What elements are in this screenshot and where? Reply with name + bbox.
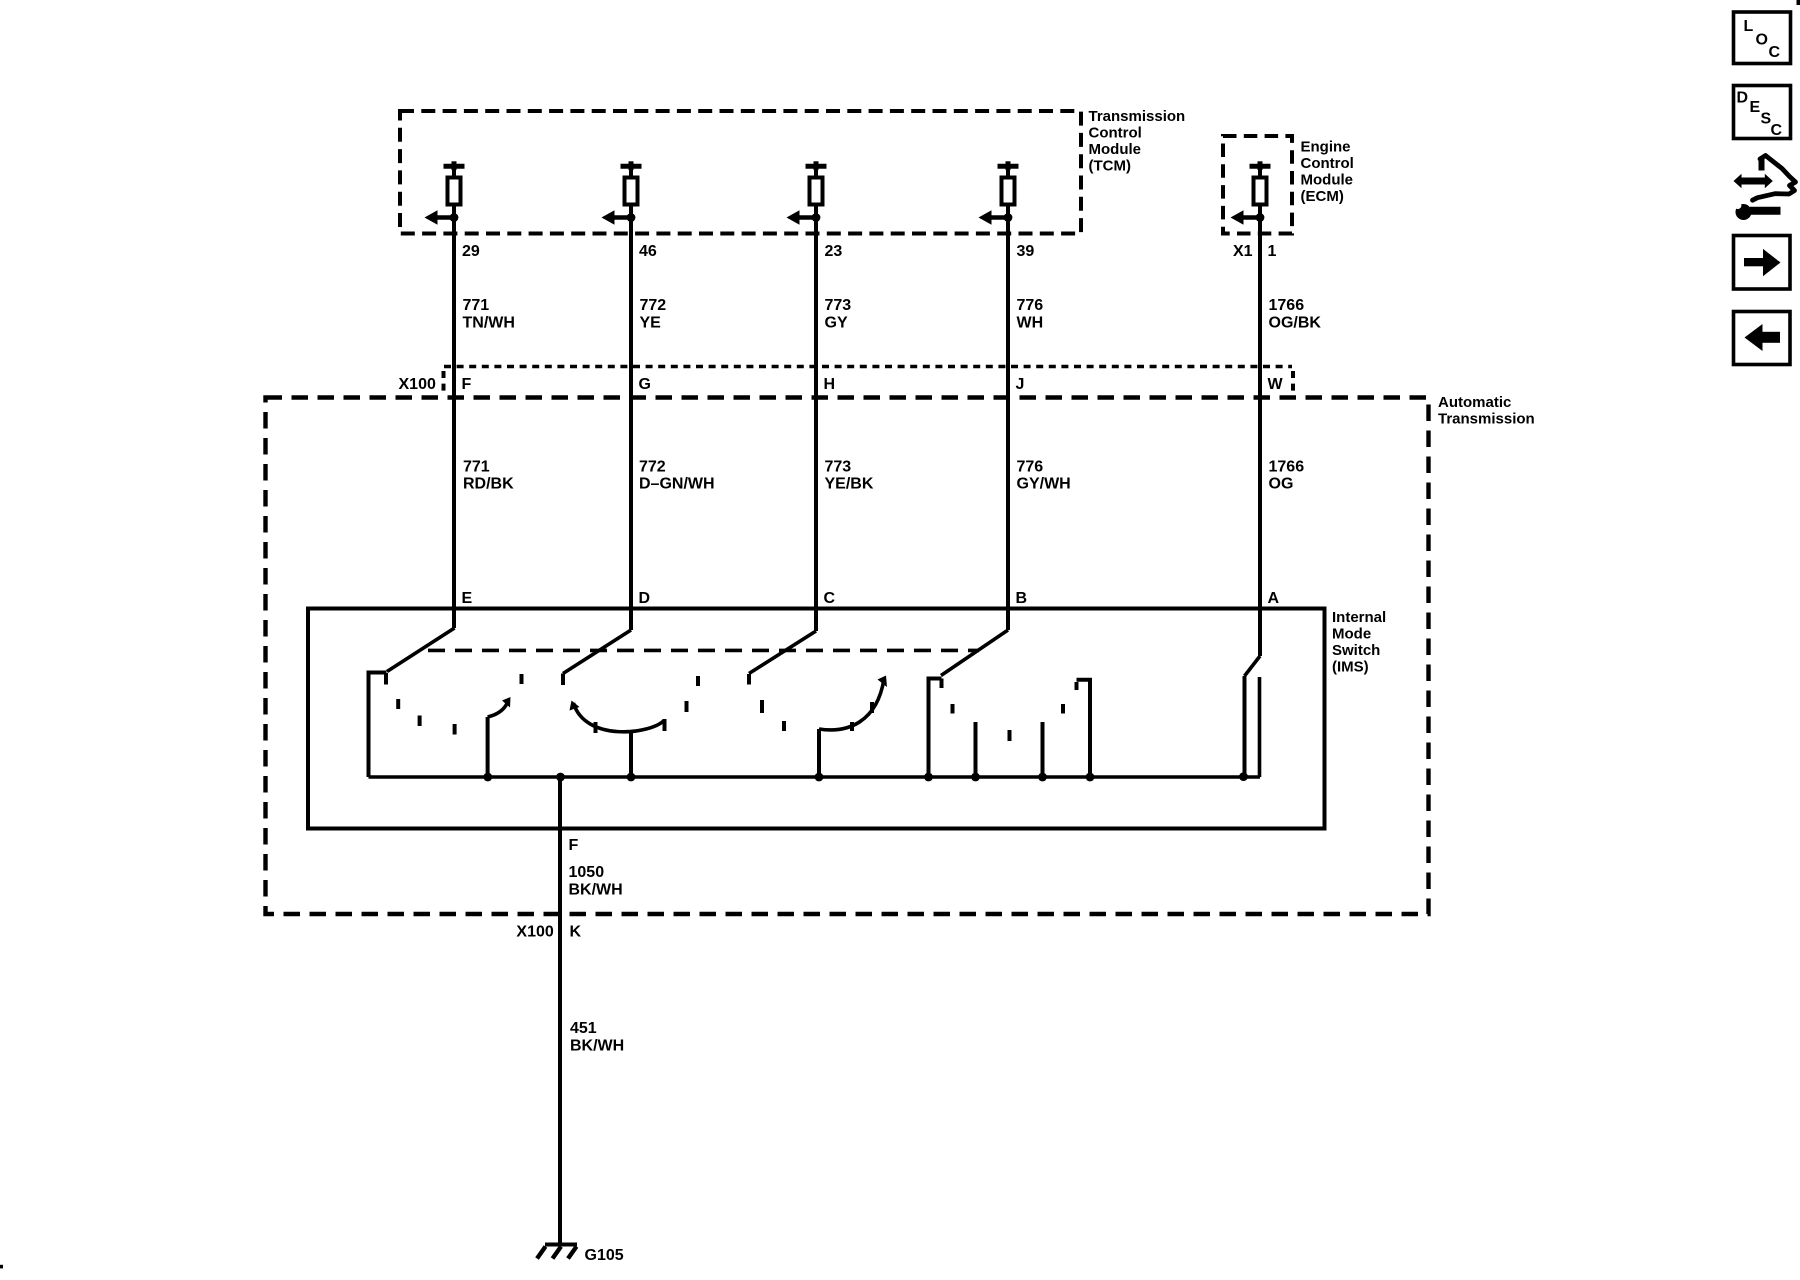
svg-text:Module: Module — [1301, 172, 1354, 189]
svg-text:23: 23 — [825, 243, 843, 260]
svg-text:1: 1 — [1268, 243, 1277, 260]
svg-text:X100: X100 — [516, 924, 553, 941]
svg-text:F: F — [569, 837, 579, 854]
svg-text:451: 451 — [570, 1020, 597, 1037]
junction dot switch B stem 1 — [971, 773, 980, 782]
svg-text:Module: Module — [1089, 141, 1142, 158]
svg-text:773: 773 — [825, 297, 852, 314]
svg-text:Transmission: Transmission — [1089, 108, 1186, 125]
svg-text:1766: 1766 — [1269, 459, 1305, 476]
IMS switch B position tick 3 — [1061, 704, 1065, 714]
IMS switch A right contact — [1258, 677, 1262, 777]
svg-text:F: F — [462, 376, 472, 393]
svg-text:Automatic: Automatic — [1438, 394, 1511, 411]
IMS solid box — [308, 609, 1325, 829]
bus junction dot for F output — [556, 773, 565, 782]
IMS switch B wiper — [941, 630, 1008, 676]
IMS switch C on-arc tick 1 — [850, 722, 854, 731]
svg-text:39: 39 — [1017, 243, 1035, 260]
svg-text:K: K — [570, 924, 582, 941]
X100 connector dotted line — [444, 365, 1292, 369]
IMS switch E position tick 3 — [453, 724, 457, 735]
IMS common bus wire — [369, 775, 1261, 779]
svg-text:772: 772 — [640, 297, 667, 314]
svg-text:W: W — [1268, 376, 1284, 393]
svg-text:YE/BK: YE/BK — [825, 476, 874, 493]
position tick between E and D — [520, 674, 524, 684]
svg-text:BK/WH: BK/WH — [570, 1038, 624, 1055]
svg-text:D: D — [639, 590, 651, 607]
IMS switch C position tick 1 — [760, 700, 764, 713]
IMS switch E position tick 1 — [396, 699, 400, 709]
IMS switch E wiper — [387, 628, 455, 672]
svg-text:A: A — [1268, 590, 1280, 607]
IMS switch D on-arc position tick — [594, 722, 598, 733]
svg-text:Switch: Switch — [1332, 642, 1380, 659]
svg-text:C: C — [1771, 122, 1783, 139]
svg-text:776: 776 — [1017, 459, 1044, 476]
IMS switch B position tick 1 — [951, 704, 955, 714]
position tick between D and C 1 — [685, 701, 689, 712]
svg-text:TN/WH: TN/WH — [463, 315, 515, 332]
svg-text:776: 776 — [1017, 297, 1044, 314]
svg-text:771: 771 — [463, 297, 490, 314]
IMS switch E common contact hook — [369, 673, 387, 778]
IMS switch E contact stem to bus — [486, 717, 490, 777]
IMS switch D arc arrowhead — [570, 701, 580, 711]
IMS switch E position tick 2 — [418, 716, 422, 727]
svg-text:B: B — [1016, 590, 1028, 607]
junction dot switch C stem — [815, 773, 824, 782]
forward arrow — [1744, 249, 1781, 276]
svg-text:29: 29 — [462, 243, 480, 260]
svg-text:773: 773 — [825, 459, 852, 476]
IMS switch A blade jog — [1245, 656, 1261, 676]
svg-text:J: J — [1016, 376, 1025, 393]
page corner mark top-right — [1797, 0, 1800, 5]
svg-text:G: G — [639, 376, 651, 393]
svg-text:G105: G105 — [585, 1247, 624, 1264]
svg-text:Control: Control — [1089, 125, 1142, 142]
IMS switch C wiper contact tick — [747, 674, 751, 685]
forward arrow icon box — [1734, 236, 1791, 290]
svg-text:1050: 1050 — [569, 864, 605, 881]
svg-text:C: C — [1769, 44, 1781, 61]
vehicle navigation icon car outline — [1753, 156, 1796, 201]
svg-text:BK/WH: BK/WH — [569, 882, 623, 899]
position tick between D and C 2 — [696, 676, 700, 686]
svg-text:Internal: Internal — [1332, 609, 1386, 626]
IMS switch E arc arrowhead — [502, 697, 511, 708]
svg-text:Engine: Engine — [1301, 139, 1351, 156]
ECM driver resistor pin X1-1 — [1231, 161, 1271, 225]
svg-text:772: 772 — [639, 459, 666, 476]
wire pin 29 to IMS E — [452, 218, 456, 629]
svg-text:H: H — [824, 376, 836, 393]
IMS switch B right contact hook to bus — [1077, 680, 1091, 777]
IMS switch C position tick 2 — [782, 721, 786, 731]
wire pin 23 to IMS C — [814, 218, 818, 632]
svg-text:OG: OG — [1269, 476, 1294, 493]
X100 connector right end cap — [1291, 371, 1295, 393]
wire pin 46 to IMS D — [629, 218, 633, 631]
junction dot switch B left hook — [924, 773, 933, 782]
wire ECM X1-1 to IMS A — [1258, 218, 1262, 657]
svg-text:GY/WH: GY/WH — [1017, 476, 1071, 493]
vehicle navigation icon double arrow — [1734, 174, 1773, 188]
svg-text:Transmission: Transmission — [1438, 411, 1535, 428]
IMS switch C on-arc tick 2 — [870, 702, 874, 713]
IMS switch A left contact to bus — [1243, 676, 1247, 777]
wire IMS F to ground — [558, 777, 562, 1246]
IMS switch C travel arc — [819, 679, 884, 730]
IMS switch B position tick 2 — [1008, 730, 1012, 741]
IMS switch B contact stem 2 to bus — [1041, 722, 1045, 777]
svg-text:D: D — [1737, 89, 1749, 106]
junction dot switch D stem — [627, 773, 636, 782]
IMS switch D wiper — [563, 630, 631, 674]
IMS switch B contact stem 1 to bus — [974, 722, 978, 777]
svg-text:L: L — [1744, 18, 1754, 35]
svg-text:E: E — [462, 590, 473, 607]
IMS switch C wiper — [749, 631, 816, 674]
vehicle navigation icon wrench — [1731, 199, 1781, 220]
TCM driver resistor pin 39 — [979, 161, 1019, 225]
IMS switch B wiper contact tick — [940, 679, 944, 689]
TCM driver resistor pin 29 — [425, 161, 465, 225]
IMS switch D arc end tick — [663, 719, 667, 731]
DESC icon box — [1734, 86, 1791, 139]
svg-text:E: E — [1750, 99, 1761, 116]
svg-text:O: O — [1756, 32, 1768, 49]
IMS switch E travel arc — [488, 702, 508, 718]
svg-text:(ECM): (ECM) — [1301, 188, 1344, 205]
svg-text:46: 46 — [639, 243, 657, 260]
junction dot switch B stem 2 — [1038, 773, 1047, 782]
svg-text:GY: GY — [825, 315, 848, 332]
junction dot switch E stem — [483, 773, 492, 782]
IMS switch C arc arrowhead — [878, 676, 888, 688]
IMS switch B right contact hook tick — [1075, 682, 1079, 690]
IMS switch D wiper contact tick — [561, 674, 565, 686]
svg-text:Mode: Mode — [1332, 626, 1371, 643]
page corner mark bottom-left — [0, 1265, 3, 1269]
IMS switch C contact stem to bus — [817, 729, 821, 777]
svg-text:OG/BK: OG/BK — [1269, 315, 1322, 332]
back arrow icon box — [1734, 312, 1791, 365]
TCM driver resistor pin 46 — [602, 161, 642, 225]
svg-text:1766: 1766 — [1269, 297, 1305, 314]
IMS switch B left contact hook to bus — [929, 679, 942, 778]
ECM module dashed box — [1223, 136, 1292, 234]
junction dot switch A — [1239, 772, 1248, 781]
wire pin 39 to IMS B — [1006, 218, 1010, 631]
junction dot switch B right hook — [1086, 773, 1095, 782]
svg-text:X100: X100 — [399, 376, 436, 393]
svg-text:(TCM): (TCM) — [1089, 158, 1131, 175]
IMS mechanical linkage dashed line — [428, 649, 979, 653]
svg-text:X1: X1 — [1233, 243, 1253, 260]
TCM driver resistor pin 23 — [787, 161, 827, 225]
svg-text:RD/BK: RD/BK — [463, 476, 514, 493]
ground symbol G105 — [537, 1245, 577, 1259]
svg-text:771: 771 — [463, 459, 490, 476]
svg-text:YE: YE — [640, 315, 662, 332]
TCM module dashed box — [400, 111, 1081, 234]
IMS switch D travel arc — [574, 703, 665, 732]
svg-text:D–GN/WH: D–GN/WH — [639, 476, 715, 493]
IMS switch E wiper contact tick — [384, 673, 388, 685]
svg-text:(IMS): (IMS) — [1332, 659, 1369, 676]
X100 connector left end cap — [442, 371, 446, 393]
svg-text:WH: WH — [1017, 315, 1044, 332]
svg-text:C: C — [824, 590, 836, 607]
svg-text:Control: Control — [1301, 155, 1354, 172]
back arrow — [1745, 324, 1781, 351]
IMS switch D contact stem to bus — [629, 731, 633, 778]
LOC icon box — [1734, 12, 1791, 64]
Automatic Transmission dashed box — [266, 398, 1429, 915]
